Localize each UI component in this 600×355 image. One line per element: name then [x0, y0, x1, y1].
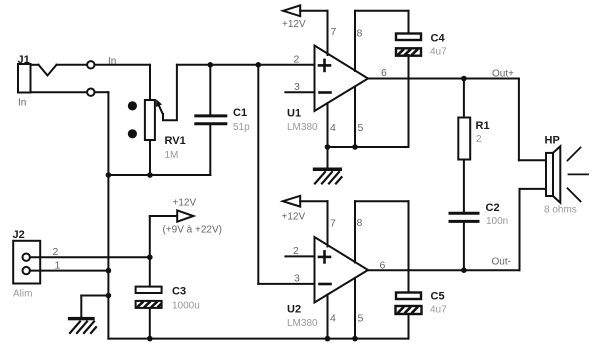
capacitor C3 [136, 257, 162, 338]
svg-text:51p: 51p [233, 122, 250, 133]
potentiometer RV1 [145, 100, 155, 140]
wire pin3 stub [285, 91, 314, 93]
svg-text:2: 2 [476, 134, 482, 145]
op-amp U2 [315, 237, 369, 303]
svg-text:4u7: 4u7 [430, 305, 447, 316]
svg-text:3: 3 [294, 81, 300, 93]
svg-text:C5: C5 [431, 291, 445, 303]
jack plug notch [39, 65, 57, 76]
wire pin7 [327, 201, 329, 246]
node [352, 336, 358, 342]
svg-text:6: 6 [380, 260, 386, 272]
wiper arrow [156, 99, 163, 114]
wire [108, 174, 210, 176]
power +12V arrow (U2) [283, 196, 328, 207]
terminal circle In- [87, 89, 94, 96]
svg-text:4: 4 [330, 122, 336, 134]
wire pin5 [354, 278, 356, 339]
svg-text:2: 2 [294, 54, 300, 66]
svg-text:(+9V à +22V): (+9V à +22V) [163, 225, 222, 236]
svg-text:Alim: Alim [13, 289, 32, 300]
node [352, 144, 358, 150]
svg-text:1M: 1M [165, 150, 179, 161]
svg-text:C2: C2 [486, 202, 500, 214]
node [461, 76, 467, 82]
wire [328, 146, 409, 148]
capacitor C1 [196, 65, 226, 175]
node [255, 62, 261, 68]
svg-text:C3: C3 [172, 286, 186, 298]
svg-text:Out-: Out- [492, 257, 511, 268]
connector J2 [13, 241, 40, 284]
svg-text:4: 4 [330, 313, 336, 325]
node [208, 62, 214, 68]
svg-text:LM380: LM380 [287, 122, 318, 133]
wire pin4 [327, 295, 329, 339]
wire [30, 256, 150, 258]
wire [149, 65, 151, 100]
svg-text:C4: C4 [431, 33, 446, 45]
resistor R1 [458, 79, 470, 212]
svg-text:U2: U2 [287, 304, 301, 316]
wire Out- [368, 189, 546, 270]
node [147, 336, 153, 342]
node [106, 172, 112, 178]
wire [163, 65, 177, 121]
node [325, 144, 331, 150]
node [461, 267, 467, 273]
wire [408, 55, 410, 147]
svg-text:+12V: +12V [282, 212, 306, 223]
svg-text:In: In [18, 98, 26, 109]
capacitor C5 [396, 293, 422, 339]
svg-text:HP: HP [545, 135, 560, 147]
RV1 panel dots [128, 101, 137, 138]
power +12V arrow (U1) [283, 5, 328, 16]
svg-text:RV1: RV1 [165, 135, 186, 147]
svg-text:U1: U1 [287, 108, 301, 120]
terminal circle In+ [87, 61, 94, 68]
node [106, 293, 112, 299]
svg-text:J2: J2 [13, 229, 25, 241]
wire [31, 91, 88, 93]
capacitor C4 [396, 34, 421, 56]
svg-text:7: 7 [331, 26, 337, 38]
power +12V arrow (J2) [150, 210, 194, 257]
connector J1 [18, 64, 31, 93]
wire [30, 270, 109, 272]
svg-text:C1: C1 [233, 107, 247, 119]
wire [57, 64, 88, 66]
svg-text:1000u: 1000u [172, 301, 200, 312]
svg-text:8 ohms: 8 ohms [544, 205, 577, 216]
wire pin8 [355, 201, 409, 292]
wire pin2 stub [285, 255, 314, 257]
op-amp U1 [315, 46, 369, 112]
svg-text:+12V: +12V [173, 198, 197, 209]
wire ground bus [108, 338, 408, 340]
svg-text:+12V: +12V [282, 19, 306, 30]
wire [107, 92, 109, 338]
svg-text:6: 6 [381, 67, 387, 79]
svg-text:5: 5 [358, 122, 364, 134]
capacitor C2 [450, 213, 478, 270]
wire [149, 140, 151, 175]
svg-text:LM380: LM380 [287, 318, 318, 329]
node [325, 336, 331, 342]
wire pin4 [327, 103, 329, 147]
wire pin7 [327, 11, 329, 55]
svg-text:4u7: 4u7 [430, 47, 447, 58]
wire [177, 64, 315, 66]
svg-text:5: 5 [358, 313, 364, 325]
ground (J2) [68, 296, 109, 334]
svg-text:100n: 100n [486, 216, 508, 227]
wire [95, 91, 109, 93]
wire [31, 64, 39, 66]
wire pin5 [354, 87, 356, 148]
wire [95, 64, 151, 66]
node [147, 254, 153, 260]
speaker HP [546, 146, 588, 202]
wire Out+ [368, 79, 546, 161]
wire pin3 U2 [258, 65, 314, 284]
svg-text:J1: J1 [18, 54, 30, 66]
svg-text:R1: R1 [476, 120, 490, 132]
ground (U1) [313, 147, 342, 184]
svg-text:Out+: Out+ [492, 69, 514, 80]
wire pin8 [355, 11, 409, 71]
node [106, 268, 112, 274]
svg-text:3: 3 [294, 273, 300, 285]
node [147, 172, 153, 178]
svg-text:8: 8 [357, 217, 363, 229]
svg-text:7: 7 [330, 218, 336, 230]
svg-text:2: 2 [293, 245, 299, 257]
svg-text:8: 8 [357, 28, 363, 40]
